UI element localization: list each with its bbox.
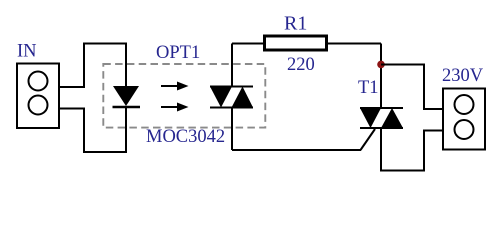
svg-text:R1: R1 xyxy=(284,13,307,35)
svg-text:230V: 230V xyxy=(442,66,484,86)
svg-text:T1: T1 xyxy=(358,78,379,98)
svg-text:IN: IN xyxy=(17,42,37,62)
svg-text:OPT1: OPT1 xyxy=(156,43,200,63)
svg-text:220: 220 xyxy=(287,55,315,75)
svg-text:MOC3042: MOC3042 xyxy=(146,127,225,147)
